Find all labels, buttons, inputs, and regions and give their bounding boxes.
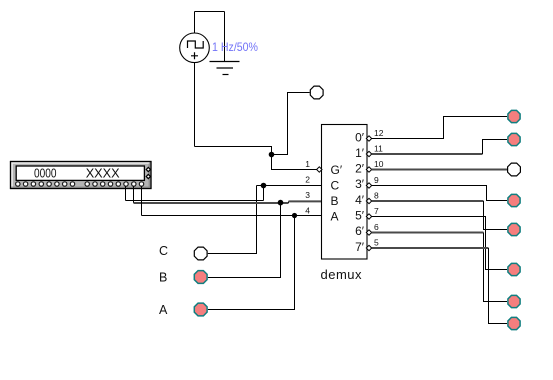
wire pin10 to probe 2' (372, 169, 508, 171)
wire pin8 drop to LED4 (484, 201, 508, 230)
demux U1 body (322, 125, 368, 260)
svg-text:6′: 6′ (355, 224, 365, 238)
svg-text:5: 5 (374, 238, 379, 248)
probe P1 (white octagon) (310, 86, 323, 99)
wire pin5 drop to LED7 (489, 248, 508, 324)
demux right labels (355, 130, 365, 254)
svg-text:7′: 7′ (355, 240, 365, 254)
probe 2' (white octagon) (508, 163, 521, 176)
wire display tap C horizontal (126, 200, 264, 202)
svg-text:6: 6 (374, 222, 379, 232)
node A junction (292, 213, 297, 218)
svg-text:C: C (331, 178, 340, 192)
counter display U2 (11, 162, 152, 189)
svg-text:demux: demux (321, 267, 363, 282)
wire pin11 horizontal (372, 153, 483, 155)
wire node to pin1 (272, 155, 318, 170)
wire net B jog (288, 201, 290, 203)
wire clock bottom vertical (194, 63, 196, 147)
svg-text:B: B (331, 194, 339, 208)
wire pin7 to LED5 (372, 217, 508, 270)
wire display tap A vertical (141, 186, 143, 215)
svg-text:3′: 3′ (355, 177, 365, 191)
svg-text:0′: 0′ (355, 130, 365, 144)
svg-text:7: 7 (374, 206, 379, 216)
svg-text:3: 3 (305, 190, 310, 200)
wire net B vertical to switch (208, 203, 281, 278)
LED 4' (508, 223, 520, 235)
svg-text:10: 10 (374, 159, 384, 169)
wire clock top right vertical to ground (224, 12, 226, 62)
svg-text:2: 2 (305, 175, 310, 185)
switch A (red octagon) (194, 303, 207, 316)
wire node to probe (272, 93, 310, 155)
LED 6' (508, 295, 520, 307)
wire pin11 riser to LED1 (483, 140, 508, 155)
pin 1 diamond (317, 167, 322, 172)
right pin diamonds (366, 136, 371, 251)
wire display tap C vertical (125, 186, 127, 200)
wire net A horizontal to pin4 (142, 215, 322, 217)
wire net B to pin3 (289, 200, 322, 202)
wire clock top horizontal (195, 11, 225, 13)
wire display tap B vertical (133, 186, 135, 203)
svg-text:1: 1 (305, 159, 310, 169)
switch B (red octagon) (194, 271, 207, 284)
wire pin6 horizontal (372, 232, 484, 234)
svg-text:9: 9 (374, 175, 379, 185)
svg-text:A: A (331, 209, 339, 223)
wire pin6 drop to LED6 (484, 233, 508, 302)
LED 5' (508, 263, 520, 275)
wire net A vertical to switch (208, 216, 295, 310)
switch C (white octagon) (194, 247, 207, 260)
wire clock to node (195, 147, 272, 155)
svg-text:4′: 4′ (355, 193, 365, 207)
wire net C vertical to switch (208, 186, 257, 254)
svg-text:4: 4 (305, 206, 310, 216)
svg-text:5′: 5′ (355, 209, 365, 223)
right pin numbers (374, 128, 384, 248)
svg-text:A: A (159, 303, 168, 317)
svg-text:XXXX: XXXX (86, 165, 120, 180)
svg-text:1′: 1′ (355, 146, 365, 160)
ground (210, 62, 240, 75)
svg-text:2′: 2′ (355, 162, 365, 176)
svg-text:11: 11 (374, 144, 383, 154)
wire pin9 to LED3 (372, 186, 508, 201)
svg-text:8: 8 (374, 191, 379, 201)
clock source V1 (180, 33, 210, 63)
svg-text:12: 12 (374, 128, 384, 138)
svg-text:G′: G′ (331, 163, 343, 177)
node C junction (261, 183, 267, 189)
svg-text:C: C (159, 244, 168, 258)
LED 3' (508, 194, 520, 206)
wire clock top left vertical (194, 12, 196, 34)
LED 7' (508, 317, 520, 329)
node clk junction (269, 152, 275, 158)
left pin numbers (305, 159, 310, 216)
svg-text:0000: 0000 (34, 165, 57, 180)
node B junction (278, 200, 284, 206)
svg-text:1 Hz/50%: 1 Hz/50% (212, 40, 258, 54)
svg-text:B: B (159, 271, 167, 285)
wire pin12 to LED0 (372, 117, 508, 139)
wire tap C up to node (263, 186, 265, 201)
LED 0' (508, 110, 520, 122)
wire net C horizontal to pin2 (257, 185, 322, 187)
wire pin8 horizontal (372, 200, 484, 202)
wire pin5 horizontal (372, 247, 489, 249)
LED 1' (508, 133, 520, 145)
wire net B horizontal (134, 202, 289, 204)
